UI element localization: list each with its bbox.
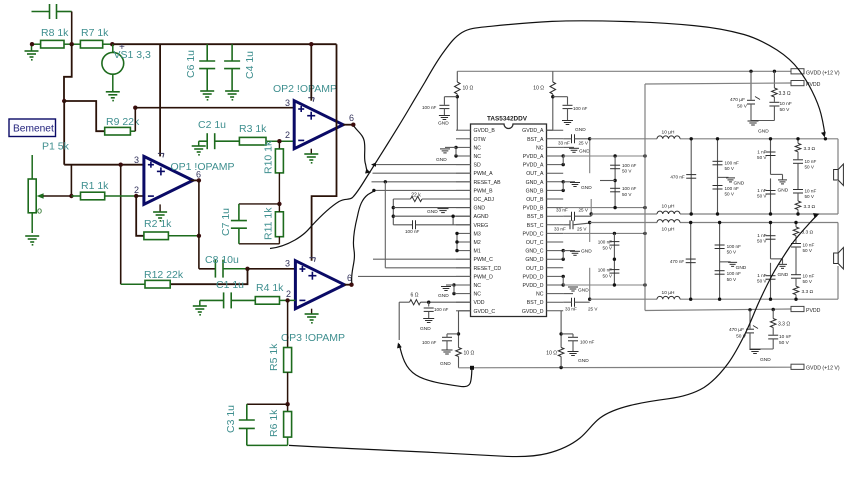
svg-text:R3 1k: R3 1k (239, 123, 267, 135)
bottom ground rail (459, 366, 792, 369)
svg-text:10 Ω: 10 Ω (546, 351, 557, 357)
svg-text:6: 6 (349, 113, 354, 123)
PVDD_B rail (563, 207, 645, 209)
svg-text:NC: NC (474, 292, 482, 298)
svg-text:10 µH: 10 µH (662, 227, 675, 233)
junction OP1 output (197, 178, 201, 182)
svg-text:3.3 Ω: 3.3 Ω (779, 91, 791, 97)
svg-text:VS1 3,3: VS1 3,3 (114, 49, 152, 61)
resistor R5 1k (287, 300, 289, 347)
PWM_A input line (373, 172, 471, 174)
svg-text:3: 3 (134, 155, 139, 165)
output line D (590, 298, 657, 300)
svg-text:470 nF: 470 nF (670, 174, 684, 179)
speaker 2 (834, 248, 844, 270)
svg-text:o: o (37, 206, 42, 216)
svg-text:33 nF: 33 nF (558, 141, 570, 146)
resistor 10 Ohm (GVDD_D) (558, 348, 564, 357)
pin stub wires right (547, 129, 564, 131)
svg-text:R4 1k: R4 1k (256, 282, 284, 294)
svg-text:25 V: 25 V (579, 208, 589, 213)
annotation curve: VDD squiggle (399, 344, 472, 387)
svg-text:PVDD_D: PVDD_D (522, 274, 543, 280)
capacitor 470nF across outputs (690, 139, 692, 214)
svg-text:GVDD_D: GVDD_D (522, 309, 544, 315)
wire from R8/R7 node down to node A (64, 44, 72, 101)
svg-text:50 V: 50 V (805, 164, 815, 169)
svg-text:GND: GND (778, 272, 789, 278)
svg-text:C6 1u: C6 1u (185, 50, 197, 78)
svg-text:R6 1k: R6 1k (268, 409, 280, 437)
svg-text:GND: GND (440, 361, 451, 367)
svg-text:2: 2 (134, 185, 139, 195)
wire OP1 pin2 down to R2 (136, 196, 144, 236)
svg-text:33 nF: 33 nF (556, 208, 568, 213)
capacitor 100nF (GVDD_A) (553, 96, 568, 98)
resistor 6 Ohm on VDD (399, 301, 409, 303)
svg-text:100 nF: 100 nF (580, 340, 594, 345)
svg-text:3: 3 (285, 259, 290, 269)
svg-text:OTW: OTW (474, 137, 486, 143)
OP2 pin7 wire to rail (310, 44, 312, 100)
capacitor 470nF across outputs (690, 223, 692, 300)
voltage source VS1 3,3 (112, 44, 114, 52)
svg-text:OC_ADJ: OC_ADJ (474, 197, 495, 203)
OP1 output wire (191, 179, 199, 181)
svg-text:10 Ω: 10 Ω (464, 351, 475, 357)
junction R1 left (69, 194, 73, 198)
svg-text:PVDD_D: PVDD_D (522, 283, 543, 289)
wire node A down and across to OP1 pin3 (63, 101, 65, 165)
svg-text:P1 5k: P1 5k (42, 141, 70, 153)
svg-text:R10 1k: R10 1k (263, 140, 275, 174)
svg-text:NC: NC (474, 154, 482, 160)
svg-text:C4 1u: C4 1u (244, 51, 256, 79)
wire OP1 out down to C8 (198, 180, 200, 268)
capacitor 100nF (GVDD_B) (444, 96, 457, 98)
svg-text:25 V: 25 V (577, 227, 587, 232)
svg-text:GND: GND (778, 187, 789, 193)
ground below P1 (25, 236, 39, 242)
svg-text:100 nF: 100 nF (725, 160, 739, 165)
capacitors 2x 100nF 50V to GND (717, 139, 719, 214)
svg-text:100 nF: 100 nF (727, 244, 741, 249)
GVDD_D decoupling: 10 Ohm + 100nF (560, 311, 562, 348)
M3 M2 M1 tie (456, 233, 458, 250)
svg-text:1 nF: 1 nF (757, 233, 766, 238)
junction C8/OP3+ node (245, 267, 249, 271)
svg-text:BST_D: BST_D (527, 300, 544, 306)
svg-text:50 V: 50 V (757, 194, 767, 199)
svg-text:10 µH: 10 µH (662, 130, 675, 136)
resistor R2 1k (144, 232, 169, 240)
BST_D bootstrap 33nF (572, 298, 575, 307)
svg-text:GND_C: GND_C (525, 249, 543, 255)
OUT_C riser (589, 223, 591, 243)
svg-text:OP1 !OPAMP: OP1 !OPAMP (171, 161, 235, 173)
svg-text:50 V: 50 V (622, 169, 632, 174)
svg-text:C7 1u: C7 1u (220, 208, 232, 236)
svg-text:R7 1k: R7 1k (81, 27, 109, 39)
svg-text:50 V: 50 V (803, 248, 813, 253)
svg-text:50 V: 50 V (622, 192, 632, 197)
svg-text:GND: GND (575, 127, 586, 133)
svg-text:10 µH: 10 µH (662, 204, 675, 210)
svg-text:GVDD (+12 V): GVDD (+12 V) (806, 71, 840, 77)
svg-text:GND: GND (438, 121, 449, 127)
junction OP3 output (349, 283, 353, 287)
svg-text:VDD: VDD (474, 300, 485, 306)
capacitor 100nF on VDD (428, 302, 430, 306)
op-amp OP3 (295, 261, 344, 309)
svg-text:PWM_D: PWM_D (474, 274, 494, 280)
speaker 1 (834, 164, 844, 186)
output line B (591, 213, 657, 215)
junction R3/R10 (277, 139, 281, 143)
capacitor C4 1u (224, 44, 240, 91)
svg-text:50 V: 50 V (805, 194, 815, 199)
wire down to R1 input node (70, 165, 72, 196)
capacitor C8 10u (215, 260, 223, 278)
svg-text:50 V: 50 V (725, 166, 735, 171)
PVDD vertical feed (644, 84, 646, 311)
svg-text:3.3 Ω: 3.3 Ω (804, 204, 816, 210)
svg-text:R11 1k: R11 1k (263, 207, 275, 240)
OP3 pin4 ground (311, 309, 313, 314)
svg-text:470 µF: 470 µF (729, 327, 744, 333)
wire to OP2 pin 3 (135, 107, 294, 109)
svg-text:GND: GND (427, 209, 438, 215)
svg-text:33 nF: 33 nF (554, 227, 566, 232)
inductor 10 uH (D) (657, 296, 680, 299)
right border + speaker (C/D) (837, 223, 839, 253)
resistor R3 1k (239, 137, 266, 145)
terminal PVDD top (791, 81, 804, 86)
svg-text:NC: NC (536, 292, 544, 298)
OP2 pin4 ground (310, 149, 312, 154)
svg-text:AGND: AGND (474, 214, 489, 220)
svg-text:10 nF: 10 nF (780, 101, 792, 107)
svg-text:OUT_C: OUT_C (526, 240, 544, 246)
junction R8/R7 (70, 42, 74, 46)
terminal PVDD bottom (791, 306, 804, 311)
svg-text:100 nF: 100 nF (598, 268, 612, 273)
IC U1 TAS5342DDV body (471, 124, 547, 317)
OP1 pin4 ground (159, 204, 161, 212)
RESET_AB input line (372, 181, 471, 183)
svg-text:50 V: 50 V (603, 273, 613, 278)
svg-text:100 nF: 100 nF (422, 105, 436, 110)
annotation curve: OP3 output to PWM_B (352, 191, 374, 283)
svg-text:C1 1u: C1 1u (216, 279, 244, 291)
PWM_C input line (373, 258, 471, 260)
top supply rail (112, 43, 336, 45)
svg-text:SD: SD (474, 163, 481, 169)
svg-text:10 nF: 10 nF (805, 159, 817, 164)
inductor 10 uH (A) (657, 136, 680, 139)
svg-text:50 V: 50 V (757, 279, 767, 284)
svg-text:BST_B: BST_B (527, 214, 544, 220)
svg-text:100 nF: 100 nF (727, 271, 741, 276)
pin stub wires left (456, 129, 471, 131)
svg-text:50 V: 50 V (727, 250, 737, 255)
svg-text:M1: M1 (474, 249, 481, 255)
svg-text:GND: GND (736, 265, 747, 271)
svg-text:GVDD_B: GVDD_B (474, 128, 496, 134)
PVDD decoupling pair A/B: 2x 100nF 50V (614, 156, 616, 208)
svg-text:33 nF: 33 nF (565, 307, 577, 312)
BST_A bootstrap 33nF (572, 134, 575, 143)
NC ground (D) (563, 293, 573, 295)
svg-text:PVDD_A: PVDD_A (523, 163, 544, 169)
wire wiper to R1 (44, 195, 72, 197)
svg-text:100 nF: 100 nF (598, 240, 612, 245)
NC pins tie + ground (top left) (454, 146, 457, 149)
svg-text:50 V: 50 V (727, 277, 737, 282)
svg-text:6: 6 (196, 170, 201, 180)
wire to OP3 pin 3 (248, 268, 296, 270)
NC pins tie + ground (bottom left) (452, 283, 455, 286)
svg-text:50 V: 50 V (725, 192, 735, 197)
ground below VS1 (106, 92, 120, 98)
svg-text:PVDD_A: PVDD_A (523, 154, 544, 160)
inductor 10 uH (B) (657, 211, 680, 214)
resistor R8 (32, 43, 41, 45)
svg-text:1 nF: 1 nF (757, 188, 766, 193)
svg-text:BST_A: BST_A (527, 137, 544, 143)
svg-text:OUT_A: OUT_A (526, 171, 544, 177)
SD input line with arrow (372, 164, 471, 166)
svg-text:3: 3 (285, 98, 290, 108)
resistor 10 Ohm (GVDD_C) (456, 348, 462, 357)
svg-text:3.3 Ω: 3.3 Ω (804, 146, 816, 152)
svg-text:1 nF: 1 nF (757, 273, 766, 278)
resistor R11 1k (275, 212, 283, 237)
svg-text:R12 22k: R12 22k (144, 269, 184, 281)
node A junction (62, 99, 66, 103)
GND_A GND_B tie + ground (562, 180, 565, 183)
svg-text:GND: GND (760, 357, 771, 363)
svg-text:GND_D: GND_D (525, 257, 543, 263)
terminal GVDD (+12 V) bottom (791, 364, 804, 369)
svg-text:PVDD_C: PVDD_C (522, 231, 543, 237)
svg-text:10 nF: 10 nF (805, 189, 817, 194)
svg-text:GND: GND (581, 249, 592, 255)
svg-text:100 nF: 100 nF (422, 340, 436, 345)
junction R9/OP2+ line (133, 106, 137, 110)
capacitor C7 1u (239, 203, 280, 205)
svg-text:GND: GND (436, 157, 447, 163)
wire rail down to OP1 pin7 (159, 44, 161, 156)
GVDD_C decoupling: 100nF + 10 Ohm (459, 310, 471, 312)
wire VDD input from blob (398, 302, 400, 340)
svg-text:GND: GND (581, 185, 592, 191)
svg-text:TAS5342DDV: TAS5342DDV (487, 116, 528, 123)
resistor R4 1k (255, 297, 279, 305)
PVDD_A tie (562, 154, 565, 157)
svg-text:GND: GND (758, 129, 769, 135)
svg-text:50 V: 50 V (803, 279, 813, 284)
op-amp OP2 (294, 101, 343, 149)
junction OP2 output (351, 123, 355, 127)
svg-text:GND: GND (438, 293, 449, 299)
capacitor 470uF 50V (top bulk) (749, 70, 752, 73)
wire C3/R6 bottom (247, 444, 288, 446)
svg-text:PVDD_B: PVDD_B (523, 206, 544, 212)
svg-text:GND_B: GND_B (526, 188, 544, 194)
svg-text:GND_A: GND_A (526, 180, 544, 186)
junction OP3 pin2 node (285, 298, 289, 302)
svg-text:GND: GND (579, 149, 590, 155)
svg-text:GND: GND (420, 326, 431, 332)
wire R9 up to OP2 pin3 line (134, 108, 136, 132)
junction OP1+ node (119, 163, 123, 167)
resistor R1 1k (71, 195, 80, 197)
output line C (590, 222, 657, 224)
svg-text:3.3 Ω: 3.3 Ω (778, 322, 790, 328)
OUT_D riser (589, 268, 591, 299)
op-amp OP1 (144, 156, 193, 204)
junction OP1 pin2 (134, 194, 138, 198)
resistor 3.3 Ohm + 10nF (top zobel) (773, 70, 776, 73)
resistor R12 22k (145, 280, 170, 288)
svg-text:C3 1u: C3 1u (225, 405, 237, 433)
PVDD_C rail (563, 232, 645, 234)
capacitor across R8 (32, 4, 72, 19)
inductor 10 uH (C) (657, 220, 680, 223)
svg-text:Bemenet: Bemenet (13, 124, 54, 135)
wire C8 node down to R12 (170, 269, 247, 284)
wire to OP1 pin 2 (136, 195, 144, 197)
resistor R9 22k (105, 127, 131, 135)
ground below R8 left (31, 44, 33, 51)
GVDD +12V top rail (457, 70, 791, 72)
svg-text:2: 2 (286, 289, 291, 299)
svg-text:100 nF: 100 nF (622, 163, 636, 168)
feedback wire rail to OP3 pin7 (312, 44, 337, 261)
wire PVDD_A rail (563, 155, 645, 157)
svg-text:1 nF: 1 nF (757, 149, 766, 154)
PVDD decoupling pair C/D: 2x 100nF 50V (613, 233, 615, 285)
wire node A to R9 (64, 101, 105, 131)
PWM_D input line (358, 275, 471, 277)
resistor 10 Ohm (GVDD_B feed) (456, 71, 458, 82)
svg-text:50 V: 50 V (757, 155, 767, 160)
svg-text:10 Ω: 10 Ω (533, 86, 544, 92)
capacitor 100nF (GVDD_D) (568, 337, 578, 341)
resistor R7 (72, 43, 81, 45)
svg-text:OP3 !OPAMP: OP3 !OPAMP (281, 332, 345, 344)
annotation curve: OP2 output to PWM_A (354, 126, 369, 172)
svg-text:C8 10u: C8 10u (205, 254, 239, 266)
OP2 output (343, 124, 353, 126)
capacitor 470uF 50V (bottom bulk) (749, 310, 751, 329)
svg-text:PWM_C: PWM_C (474, 257, 494, 263)
BST_C bootstrap 33nF (570, 220, 573, 229)
svg-text:25 V: 25 V (579, 141, 589, 146)
svg-text:50 V: 50 V (779, 340, 790, 346)
output line A (590, 138, 657, 140)
PVDD bottom rail (645, 309, 791, 311)
svg-text:BST_C: BST_C (527, 223, 544, 229)
OUT_A riser (589, 139, 591, 173)
svg-text:100 nF: 100 nF (405, 229, 419, 234)
svg-text:M2: M2 (474, 240, 481, 246)
svg-text:M3: M3 (474, 231, 481, 237)
svg-text:GVDD_C: GVDD_C (474, 309, 496, 315)
svg-text:3.3 Ω: 3.3 Ω (802, 289, 814, 295)
svg-text:GVDD_A: GVDD_A (522, 128, 544, 134)
svg-text:NC: NC (536, 145, 544, 151)
junction R8 left (30, 42, 34, 46)
svg-text:2: 2 (285, 130, 290, 140)
svg-text:50 V: 50 V (780, 107, 791, 113)
svg-text:470 µF: 470 µF (730, 97, 745, 103)
resistor 3.3 Ohm + 10nF snubbers (797, 139, 799, 144)
svg-text:470 nF: 470 nF (670, 259, 684, 264)
svg-text:R2 1k: R2 1k (144, 218, 172, 230)
resistor R6 1k (287, 404, 289, 411)
PVDD top rail (645, 83, 791, 84)
svg-text:100 nF: 100 nF (573, 106, 587, 111)
GND_C GND_D tie + ground (562, 249, 565, 252)
svg-text:50 V: 50 V (757, 239, 767, 244)
svg-text:100 nF: 100 nF (622, 186, 636, 191)
AGND tie rail (392, 199, 394, 225)
svg-text:PWM_A: PWM_A (474, 171, 494, 177)
wire OP1+ node down to R12 (120, 165, 122, 285)
svg-text:R8 1k: R8 1k (41, 27, 69, 39)
junction R5/R6/C3 (285, 402, 289, 406)
resistor R10 1k (278, 141, 280, 149)
PWM_B input line (373, 189, 471, 191)
svg-text:10 nF: 10 nF (803, 243, 815, 248)
annotation curve: big arc to OUT_A (270, 21, 825, 249)
junction R10/R11 (277, 202, 281, 206)
OUT_B riser (590, 199, 592, 214)
svg-text:RESET_CD: RESET_CD (474, 266, 502, 272)
capacitor 1nF 50V pair + GND (770, 223, 772, 259)
capacitor C3 1u (247, 403, 288, 405)
svg-text:PVDD: PVDD (806, 308, 821, 314)
svg-text:C2 1u: C2 1u (198, 119, 226, 131)
capacitors 2x 100nF 50V to GND (719, 223, 721, 300)
BST_B bootstrap 33nF (572, 212, 575, 221)
capacitor C6 1u (199, 44, 215, 91)
OP3 output (344, 284, 351, 286)
svg-text:50 V: 50 V (603, 245, 613, 250)
junction R7/VS1/rail (110, 42, 114, 46)
svg-text:OUT_B: OUT_B (526, 197, 544, 203)
resistor 22k on OC_ADJ (393, 198, 410, 200)
svg-text:GVDD (+12 V): GVDD (+12 V) (806, 366, 840, 372)
svg-text:22 k: 22 k (411, 193, 421, 199)
capacitor 1nF 50V pair + GND (770, 139, 772, 175)
svg-text:100 nF: 100 nF (725, 186, 739, 191)
svg-text:NC: NC (474, 145, 482, 151)
junction R2/C8 node (197, 234, 201, 238)
terminal GVDD (+12 V) top (791, 69, 804, 74)
resistor 3.3 Ohm + 10nF snubbers (795, 223, 797, 228)
svg-text:6 Ω: 6 Ω (411, 293, 419, 299)
svg-text:NC: NC (474, 283, 482, 289)
capacitor 100nF on VREG (393, 224, 412, 226)
annotation curve: bottom sweep to OUT_B (289, 216, 817, 457)
svg-text:GND: GND (578, 288, 589, 294)
svg-text:RESET_AB: RESET_AB (474, 180, 502, 186)
resistor 10 Ohm (GVDD_A feed) (552, 71, 554, 82)
svg-text:PWM_B: PWM_B (474, 188, 494, 194)
